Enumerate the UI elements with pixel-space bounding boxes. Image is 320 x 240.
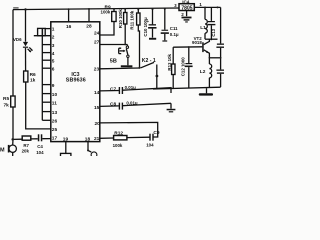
svg-text:0.1μ: 0.1μ: [170, 32, 179, 37]
svg-text:C11: C11: [170, 26, 178, 31]
svg-text:9: 9: [52, 83, 55, 89]
svg-text:14: 14: [94, 90, 100, 96]
svg-text:15: 15: [94, 105, 100, 111]
svg-text:SB9636: SB9636: [66, 78, 86, 84]
svg-text:3: 3: [52, 43, 55, 49]
svg-text:K2 - 1: K2 - 1: [142, 58, 156, 64]
svg-text:2: 2: [52, 35, 55, 41]
svg-text:18: 18: [85, 136, 91, 142]
svg-text:VD6: VD6: [13, 37, 22, 42]
svg-text:4: 4: [52, 51, 55, 57]
svg-text:13: 13: [52, 110, 58, 116]
svg-text:26: 26: [52, 119, 58, 125]
svg-text:C13: C13: [211, 28, 216, 36]
svg-text:100k: 100k: [113, 143, 123, 148]
svg-text:25: 25: [52, 127, 58, 133]
svg-text:104: 104: [36, 150, 44, 155]
svg-text:R11 100k: R11 100k: [129, 10, 134, 29]
svg-text:104: 104: [146, 143, 154, 148]
svg-text:17: 17: [52, 136, 58, 142]
svg-text:28: 28: [86, 24, 92, 30]
svg-text:IC4: IC4: [182, 0, 190, 5]
svg-text:6: 6: [52, 66, 55, 72]
svg-text:16: 16: [66, 24, 72, 30]
svg-text:C4: C4: [37, 144, 43, 149]
svg-text:9018: 9018: [192, 40, 202, 45]
svg-text:11: 11: [52, 100, 57, 106]
svg-text:1k: 1k: [30, 78, 36, 84]
svg-text:C9: C9: [153, 130, 159, 136]
svg-text:100k: 100k: [101, 9, 111, 14]
svg-text:L1: L1: [200, 25, 206, 31]
svg-text:2: 2: [181, 12, 184, 17]
svg-text:C7: C7: [110, 86, 116, 92]
svg-text:R6: R6: [30, 72, 36, 78]
svg-text:C8: C8: [110, 101, 116, 107]
svg-text:24: 24: [94, 30, 100, 36]
svg-text:23: 23: [94, 67, 100, 73]
svg-text:+: +: [147, 19, 150, 24]
svg-text:1: 1: [52, 26, 55, 32]
svg-text:20k: 20k: [22, 149, 30, 154]
svg-text:0.01μ: 0.01μ: [126, 100, 138, 105]
svg-text:1: 1: [199, 2, 202, 7]
svg-text:R5: R5: [3, 96, 9, 102]
svg-text:L2: L2: [200, 69, 206, 75]
svg-text:R10 100k: R10 100k: [118, 9, 123, 29]
svg-text:5: 5: [52, 58, 55, 64]
svg-text:R12: R12: [114, 130, 123, 136]
svg-text:10: 10: [52, 92, 58, 98]
svg-text:M: M: [0, 148, 5, 154]
svg-text:5B: 5B: [110, 59, 117, 65]
svg-text:20: 20: [95, 121, 101, 127]
svg-text:3: 3: [174, 3, 177, 8]
svg-text:19: 19: [63, 136, 69, 142]
svg-text:21: 21: [94, 136, 100, 142]
svg-text:7k: 7k: [4, 103, 10, 109]
svg-text:R7: R7: [23, 143, 29, 148]
svg-text:27: 27: [94, 40, 100, 46]
svg-text:0.01μ: 0.01μ: [125, 85, 137, 90]
svg-text:R13 10k: R13 10k: [167, 53, 172, 70]
svg-text:7805: 7805: [181, 6, 192, 12]
svg-text:C12 1000: C12 1000: [180, 57, 185, 77]
